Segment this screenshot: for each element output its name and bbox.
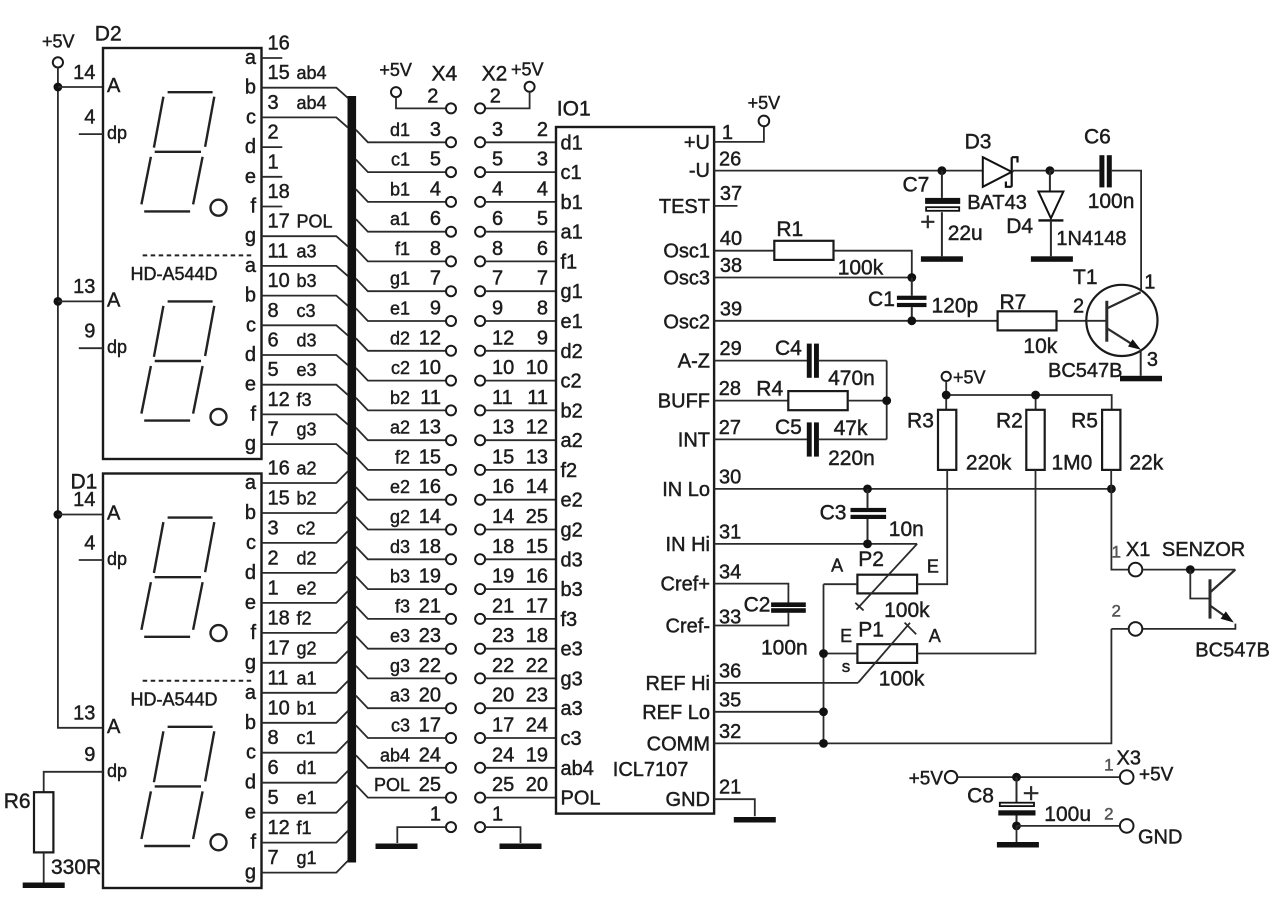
svg-text:24: 24 [526,715,548,737]
svg-text:f2: f2 [561,460,578,482]
svg-text:dp: dp [107,761,127,781]
svg-text:e: e [245,592,256,614]
display D1 HD-A544D [71,471,262,889]
D2 pin 8 segment c net c3 [246,300,348,337]
svg-text:c: c [246,532,256,554]
IO1 left pin 18 name e3 [561,639,583,661]
svg-text:220n: 220n [828,447,875,470]
svg-text:X3: X3 [1117,748,1141,770]
X2 pin 5 to IO1 pin 3 net c1 [475,149,556,178]
svg-text:+5V: +5V [379,60,412,80]
svg-text:e2: e2 [561,490,583,512]
ground X2 pin1 [500,844,542,850]
D1 pin 16 segment a net a2 [245,458,348,495]
svg-text:2: 2 [268,547,279,569]
svg-text:11: 11 [420,387,441,409]
capacitor C5 220n [775,416,887,470]
resistor R1 100k [774,218,883,279]
svg-text:31: 31 [719,522,741,544]
svg-text:9: 9 [84,321,95,343]
diode D4 1N4148 [1006,171,1126,257]
svg-text:c1: c1 [561,162,582,184]
connector X1 pin 2 [1111,602,1142,636]
svg-text:20: 20 [492,685,514,707]
op-amp U1 IC IO1 ICL7107 body [556,98,714,814]
svg-text:a2: a2 [390,418,410,438]
svg-text:BUFF: BUFF [658,391,710,413]
wire C8 to ground [1016,826,1018,842]
IO1 pin 38 Osc3 [663,255,911,290]
D2 pin 17 segment g net POL [245,211,348,248]
D2 pin 13 A [73,276,121,311]
svg-text:12: 12 [268,389,290,411]
svg-text:3: 3 [268,92,279,114]
svg-text:f1: f1 [297,818,312,838]
svg-text:f: f [250,196,256,218]
X2 pin 12 to IO1 pin 9 net d2 [475,327,556,356]
wire P2 A to common vertical [824,583,858,585]
svg-text:R2: R2 [996,409,1023,432]
svg-text:47k: 47k [834,417,868,440]
svg-text:C2: C2 [744,594,771,617]
X4 pin 14 net g2 [356,506,456,535]
IO1 pin 40 Osc1 [663,228,774,263]
IO1 pin 35 REF Lo [642,690,823,724]
svg-text:e3: e3 [390,626,410,646]
capacitor C4 470n [775,337,887,390]
svg-text:d3: d3 [297,331,317,351]
svg-text:a: a [245,682,257,704]
svg-text:25: 25 [492,774,514,796]
svg-text:18: 18 [268,181,290,203]
X2 pin 13 to IO1 pin 12 net a2 [475,417,556,446]
wire integrator right vertical [886,361,888,440]
D2 pin 4 dp [79,107,127,144]
svg-text:a1: a1 [561,222,583,244]
svg-text:15: 15 [268,488,290,510]
svg-text:17: 17 [268,211,290,233]
D2 pin 11 segment a net a3 [245,240,348,277]
connector X4 label [432,63,458,86]
svg-text:g2: g2 [561,520,583,542]
ground X4 pin1 [376,844,418,850]
svg-text:6: 6 [492,208,503,230]
node COMM junction [819,739,828,748]
capacitor C1 120p [868,278,978,321]
D1 pin 7 segment g net g1 [245,847,348,884]
svg-text:1: 1 [268,151,279,173]
svg-text:TEST: TEST [659,196,710,218]
svg-text:1: 1 [722,122,733,144]
svg-text:b1: b1 [390,179,410,199]
D2 digit 1 [141,92,226,216]
svg-text:c: c [246,742,256,764]
potentiometer P2 100k [831,544,939,622]
node IN Hi / C3 junction [863,540,872,549]
svg-text:9: 9 [430,298,441,320]
X4 pin 22 net g3 [356,655,456,684]
svg-text:IO1: IO1 [557,98,591,121]
power +5V terminal top-left [42,32,75,68]
svg-text:6: 6 [268,330,279,352]
svg-text:f3: f3 [395,596,410,616]
svg-text:c: c [246,106,256,128]
X4 pin 17 net c3 [356,715,456,744]
svg-text:e3: e3 [297,360,317,380]
svg-text:7: 7 [430,268,441,290]
D2 pin 9 dp [79,321,127,358]
svg-text:e: e [245,166,256,188]
svg-text:7: 7 [537,268,548,290]
ground D4 [1031,256,1073,262]
svg-text:2: 2 [1112,602,1121,621]
svg-text:a3: a3 [561,698,583,720]
svg-text:8: 8 [537,298,548,320]
svg-text:g: g [245,862,256,884]
svg-text:d1: d1 [390,120,410,140]
X2 pin 3 to IO1 pin 2 net d1 [475,119,556,148]
wire +5V rail left [58,68,103,728]
svg-text:1: 1 [1144,272,1155,294]
svg-text:-U: -U [689,160,710,182]
IO1 left pin 19 name ab4 [561,758,594,780]
wire common vertical net [823,584,825,743]
svg-text:d: d [245,136,256,158]
D2 pin 6 segment d net d3 [245,330,348,367]
svg-text:37: 37 [720,183,742,205]
svg-text:d2: d2 [297,548,317,568]
svg-text:C6: C6 [1084,126,1111,149]
power +5V terminal bottom [909,769,958,790]
D2 digit 2 [141,301,226,425]
ground C8 [997,842,1039,848]
svg-text:e1: e1 [297,788,317,808]
svg-text:10: 10 [526,357,548,379]
svg-text:b1: b1 [297,698,317,718]
D1 digit 2 [141,727,226,851]
svg-text:g3: g3 [390,656,410,676]
IO1 left pin 25 name g2 [561,520,583,542]
svg-text:30: 30 [719,467,741,489]
svg-text:18: 18 [492,536,514,558]
resistor R3 220k [907,409,1012,474]
IO1 pin 1 +U [684,122,764,154]
svg-text:17: 17 [268,637,290,659]
svg-text:9: 9 [84,744,95,766]
svg-text:a2: a2 [561,430,583,452]
X4 pin 4 net b1 [356,178,456,207]
svg-text:10n: 10n [889,518,924,541]
X4 pin 8 net f1 [356,238,456,267]
svg-text:R6: R6 [4,790,31,813]
svg-text:g: g [245,225,256,247]
wire X1 pin1 to sensor [1142,569,1235,571]
svg-text:6: 6 [430,208,441,230]
svg-text:5: 5 [268,787,279,809]
svg-text:C5: C5 [775,416,802,439]
svg-text:f: f [250,832,256,854]
X4 pin 21 net f3 [356,595,456,624]
wire R6 to ground [43,852,45,882]
X4 pin 7 net g1 [356,268,456,297]
svg-text:3: 3 [537,149,548,171]
D2 pin 14 A [73,62,121,97]
svg-text:b: b [245,502,256,524]
svg-text:P2: P2 [858,548,884,571]
X2 pin 18 to IO1 pin 15 net d3 [475,536,556,565]
X4 pin 11 net b2 [356,387,456,416]
svg-text:22u: 22u [948,222,983,245]
svg-text:8: 8 [268,727,279,749]
connector X3 pin 1 [1104,748,1174,786]
X4 pin 10 net c2 [356,357,456,386]
svg-text:POL: POL [561,788,601,810]
svg-text:c3: c3 [297,301,316,321]
svg-text:REF Lo: REF Lo [642,702,710,724]
svg-text:D4: D4 [1006,215,1033,238]
D2 pin 3 segment c net ab4 [246,92,348,128]
svg-text:c1: c1 [297,728,316,748]
svg-text:HD-A544D: HD-A544D [130,264,217,284]
svg-text:c2: c2 [391,358,410,378]
IO1 pin 31 IN Hi [666,522,918,556]
svg-text:d3: d3 [390,537,410,557]
svg-text:REF Hi: REF Hi [646,673,710,695]
svg-text:8: 8 [430,238,441,260]
svg-text:9: 9 [537,327,548,349]
svg-text:1: 1 [268,577,279,599]
svg-text:P1: P1 [858,619,884,642]
X2 pin 14 to IO1 pin 25 net g2 [475,506,556,535]
svg-text:220k: 220k [966,452,1012,475]
svg-text:b: b [245,712,256,734]
D1 pin 1 segment e net e2 [245,577,348,614]
svg-text:a: a [245,47,257,69]
svg-text:a2: a2 [297,459,317,479]
IO1 left pin 4 name b1 [561,192,583,214]
node D1 A pin14 junction [54,510,104,519]
svg-text:g1: g1 [390,269,410,289]
svg-text:14: 14 [73,62,95,84]
svg-text:3: 3 [1147,349,1158,371]
IO1 left pin 22 name g3 [561,668,583,690]
svg-text:40: 40 [720,228,742,250]
svg-text:16: 16 [526,566,548,588]
svg-text:g2: g2 [390,507,410,527]
svg-text:T1: T1 [1073,266,1098,289]
IO1 left pin 15 name d3 [561,549,583,571]
transistor sensor BC547B [1142,570,1270,662]
svg-text:5: 5 [492,149,503,171]
D1 pin 11 segment a net a1 [245,667,348,704]
svg-text:19: 19 [526,744,548,766]
svg-text:3: 3 [268,517,279,539]
svg-text:b3: b3 [561,579,583,601]
svg-text:36: 36 [719,661,741,683]
svg-text:1: 1 [492,804,503,826]
D1 pin 17 segment g net g2 [245,637,348,674]
IO1 left pin 17 name f3 [561,609,578,631]
svg-text:100n: 100n [761,637,808,660]
IO1 left pin 23 name a3 [561,698,583,720]
svg-text:7: 7 [268,847,279,869]
X2 pin 17 to IO1 pin 24 net c3 [475,715,556,744]
wire P1 E to common vertical [824,653,858,655]
svg-text:Osc1: Osc1 [663,241,710,263]
IO1 pin 37 TEST stub [659,183,742,218]
svg-text:1M0: 1M0 [1052,452,1093,475]
svg-text:+U: +U [684,132,710,154]
X2 pin 15 to IO1 pin 13 net f2 [475,446,556,475]
svg-text:g: g [245,433,256,455]
svg-text:12: 12 [526,417,548,439]
svg-text:21: 21 [719,777,741,799]
svg-text:14: 14 [526,476,548,498]
svg-text:10: 10 [268,697,290,719]
power +5V at IO1 pin1 [748,93,781,126]
svg-text:29: 29 [720,338,742,360]
svg-text:E: E [840,626,852,646]
svg-text:11: 11 [268,667,289,689]
svg-text:+5V: +5V [748,93,781,113]
wire C8 to X3 pin2 [1017,825,1120,827]
svg-text:C8: C8 [967,785,994,808]
IO1 left pin 5 name a1 [561,222,583,244]
IO1 left pin 3 name c1 [561,162,582,184]
svg-text:4: 4 [492,178,503,200]
svg-text:+5V: +5V [511,60,544,80]
D1 digit 1 [141,518,226,642]
svg-text:22: 22 [492,655,514,677]
D2 pin 16 segment a [245,33,290,70]
connector X2 label [482,63,508,86]
capacitor C8 100u polarized [967,777,1091,826]
svg-text:d2: d2 [390,328,410,348]
node -U / C7 junction [938,166,947,175]
svg-text:E: E [927,556,939,576]
node BUFF junction [882,396,891,405]
IO1 pin 34 Cref+ [661,562,789,603]
svg-text:e: e [245,374,256,396]
svg-text:A: A [107,503,121,525]
svg-text:13: 13 [492,417,514,439]
svg-text:c2: c2 [561,371,582,393]
svg-text:HD-A544D: HD-A544D [130,690,217,710]
svg-text:A: A [107,75,121,97]
D1 pin 3 segment c net c2 [246,517,348,554]
D1 pin 10 segment b net b1 [245,697,348,734]
svg-text:c: c [246,314,256,336]
X4 pin 13 net a2 [356,417,456,446]
svg-text:27: 27 [719,417,741,439]
svg-text:100k: 100k [884,599,930,622]
svg-text:f3: f3 [297,390,312,410]
svg-text:22: 22 [526,655,548,677]
IO1 pin 32 COMM [647,629,1112,756]
D1 pin 13 A [73,703,121,738]
D2 pin 10 segment b net b3 [245,270,348,307]
svg-text:1: 1 [1112,543,1121,562]
svg-text:5: 5 [268,359,279,381]
svg-text:25: 25 [419,774,441,796]
X2 pin 4 to IO1 pin 4 net b1 [475,178,556,207]
svg-text:16: 16 [268,33,290,55]
svg-text:20: 20 [419,685,441,707]
IO1 left pin 11 name b2 [561,400,583,422]
svg-text:19: 19 [419,566,441,588]
D1 pin 4 dp [79,533,127,570]
svg-text:f2: f2 [395,447,410,467]
X2 pin 25 to IO1 pin 20 net POL [475,774,556,803]
svg-text:15: 15 [492,446,514,468]
svg-text:17: 17 [526,595,548,617]
X2 pin 22 to IO1 pin 22 net g3 [475,655,556,684]
svg-text:c1: c1 [391,150,410,170]
svg-text:X1: X1 [1126,539,1150,561]
svg-text:19: 19 [492,566,514,588]
svg-text:+5V: +5V [909,769,944,790]
svg-text:D2: D2 [95,23,122,46]
svg-text:13: 13 [419,417,441,439]
D2 pin 12 segment f net f3 [250,389,347,426]
wire +5V to X3 pin1 [958,776,1120,778]
node D3 cathode / D4 junction [1046,166,1055,175]
svg-text:f1: f1 [395,239,410,259]
svg-text:Osc2: Osc2 [663,311,710,333]
D1 pin 15 segment b net b2 [245,488,348,525]
node IN Lo / C3 junction [863,485,872,494]
svg-text:2: 2 [1073,296,1084,318]
svg-text:330R: 330R [51,856,101,879]
svg-text:a3: a3 [390,686,410,706]
svg-text:IN Lo: IN Lo [662,479,710,501]
svg-text:s: s [842,657,851,676]
svg-text:b1: b1 [561,192,583,214]
svg-text:e3: e3 [561,639,583,661]
D1 pin 18 segment f net f2 [250,607,347,644]
transistor T1 BC547B [1048,266,1158,382]
svg-text:8: 8 [268,300,279,322]
svg-text:f1: f1 [561,251,578,273]
X4 pin 1 circle [397,804,456,844]
ground IO1 GND [734,817,776,823]
svg-text:35: 35 [719,690,741,712]
IO1 left pin 13 name f2 [561,460,578,482]
potentiometer P1 100k [840,619,941,691]
svg-text:11: 11 [527,387,548,409]
X4 pin 3 net d1 [356,119,456,148]
svg-text:b3: b3 [390,567,410,587]
svg-text:ab4: ab4 [380,745,410,765]
IO1 pin 26 -U / wire -U net [689,148,983,182]
svg-text:12: 12 [492,327,514,349]
svg-text:470n: 470n [828,367,875,390]
node Osc3/C1 junction [907,273,916,282]
svg-text:g: g [245,652,256,674]
IO1 left pin 12 name a2 [561,430,583,452]
svg-text:100u: 100u [1044,803,1091,826]
X4 pin 6 net a1 [356,208,456,237]
IO1 left pin 8 name e1 [561,311,583,333]
svg-text:4: 4 [537,178,548,200]
svg-text:g3: g3 [297,420,317,440]
svg-text:d: d [245,344,256,366]
X2 pin 24 to IO1 pin 19 net ab4 [475,744,556,773]
node rail R2 junction [1031,391,1040,400]
svg-text:2: 2 [537,119,548,141]
svg-text:D3: D3 [965,131,992,154]
resistor R5 22k [1071,409,1164,474]
